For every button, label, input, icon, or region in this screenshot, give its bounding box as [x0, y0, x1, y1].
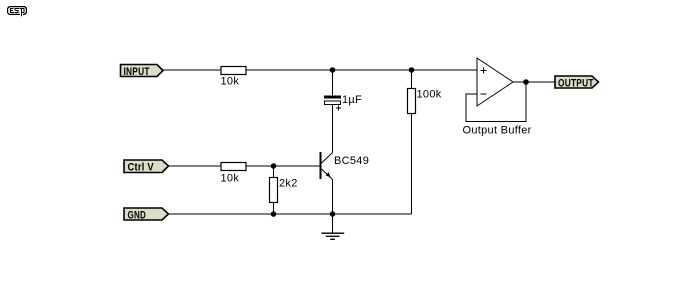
op-amp U1	[477, 58, 513, 106]
wire ground stem	[332, 214, 334, 233]
node junction CtrlV/R3	[271, 163, 277, 169]
svg-text:GND: GND	[128, 209, 147, 222]
label R4 100k	[417, 89, 442, 101]
svg-text:OUTPUT: OUTPUT	[558, 77, 594, 89]
svg-text:Output Buffer: Output Buffer	[463, 125, 532, 137]
svg-text:10k: 10k	[221, 173, 240, 185]
node junction output/feedback	[523, 79, 529, 85]
resistor R3 2k2	[270, 178, 278, 203]
node junction GND/ground	[330, 211, 336, 217]
wire R4 top lead	[411, 70, 413, 89]
capacitor C1	[324, 96, 341, 105]
label C1 plus	[336, 106, 341, 111]
wire R3 bottom lead	[273, 203, 275, 215]
resistor R2	[221, 163, 246, 171]
svg-text:BC549: BC549	[334, 155, 369, 167]
wire R1 to op-amp + input	[246, 69, 477, 71]
wire R2 to Q1 base	[246, 165, 320, 167]
wire op-amp output	[513, 81, 555, 83]
wire INPUT tag to R1	[163, 69, 221, 71]
label R1 10k	[221, 76, 240, 88]
resistor R4 100k	[408, 89, 416, 114]
svg-text:1µF: 1µF	[342, 94, 362, 106]
wire R4 bottom lead to GND rail	[411, 114, 413, 215]
label U1 Output Buffer	[463, 125, 532, 137]
svg-text:INPUT: INPUT	[124, 66, 150, 78]
node junction GND/R3	[271, 211, 277, 217]
OUTPUT tag	[555, 76, 599, 90]
svg-text:100k: 100k	[417, 89, 442, 101]
svg-text:2k2: 2k2	[279, 178, 298, 190]
Ctrl V tag	[124, 160, 169, 174]
wire op-amp feedback	[466, 82, 526, 121]
GND tag	[124, 208, 169, 222]
wire R3 top lead	[273, 166, 275, 178]
svg-text:Ctrl V: Ctrl V	[128, 162, 154, 174]
wire top node to C1	[332, 70, 334, 96]
label R2 10k	[221, 173, 240, 185]
node junction top/R4	[409, 67, 415, 73]
ESP logo	[7, 6, 27, 16]
ground	[321, 233, 344, 239]
label C1 1µF	[342, 94, 362, 106]
resistor R1	[221, 67, 246, 75]
svg-text:10k: 10k	[221, 76, 240, 88]
transistor Q1 BC549	[320, 152, 333, 180]
node junction top/C1	[330, 67, 336, 73]
wire C1 to Q1 collector	[332, 105, 334, 153]
INPUT tag	[121, 65, 164, 79]
wire Ctrl V tag to R2	[169, 165, 222, 167]
wire Q1 emitter to GND rail	[332, 180, 334, 215]
wire GND rail	[169, 213, 412, 215]
label R3 2k2	[279, 178, 298, 190]
label Q1 BC549	[334, 155, 369, 167]
